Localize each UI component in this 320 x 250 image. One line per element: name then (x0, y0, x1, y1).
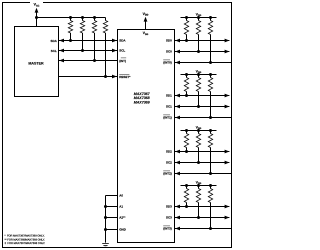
svg-text:RESET*: RESET* (119, 75, 131, 79)
pullup resistor (SD2) (184, 134, 188, 148)
arrow SD3 outward (225, 205, 230, 209)
svg-text:(INT2): (INT2) (163, 172, 172, 176)
wire VDD rail channel 0 (181, 17, 217, 19)
arrow SD1 into IC (175, 94, 180, 98)
junction rail / R3 (93, 16, 96, 19)
wire VDD stem (145, 20, 147, 30)
pullup resistor R1 (SDA) (68, 21, 72, 34)
IC U1 MAX7367/MAX7368/MAX7369 box (118, 30, 175, 243)
svg-text:MAX7368: MAX7368 (134, 96, 150, 100)
svg-text:SCL: SCL (119, 49, 125, 53)
wire pullup to SD1 line (186, 92, 188, 96)
wire INT line (59, 60, 118, 62)
wire INT3 line (175, 228, 232, 230)
svg-text:VDD: VDD (143, 12, 149, 17)
wire rail to pullup INT0 (210, 18, 212, 21)
junction rail / pullup SD1 (185, 73, 188, 76)
wire A0 stub (106, 195, 118, 197)
arrow SC0 outward (225, 50, 230, 54)
pullup resistor (INT2) (208, 134, 212, 148)
wire SD0 line (175, 40, 230, 42)
overbar (INT0) (163, 59, 170, 61)
wire pullup to SD2 line (186, 148, 188, 152)
wire SC2 line (175, 162, 230, 164)
wire pullup to INT1 line (210, 92, 212, 118)
junction rail / pullup INT3 (209, 184, 212, 187)
wire R4 to RESET line (105, 33, 107, 77)
VCC arrow up (35, 8, 39, 13)
pullup resistor (SC1) (196, 78, 200, 92)
overbar (INT3) (163, 225, 170, 227)
arrow SC3 into IC (175, 216, 180, 220)
arrow SDA into master (59, 39, 64, 43)
junction R4 / RESET line (104, 75, 107, 78)
pullup resistor R4 (RESET) (103, 21, 107, 34)
wire pullup to SC1 line (198, 92, 200, 107)
svg-text:(INT): (INT) (119, 59, 126, 63)
wire rail to R2 (82, 18, 84, 21)
svg-text:MAX7369: MAX7369 (134, 101, 150, 105)
overbar (INT1) (163, 114, 170, 116)
junction rail / R2 (81, 16, 84, 19)
svg-text:SD1: SD1 (166, 94, 172, 98)
junction pullup / SC0 line (197, 50, 200, 53)
arrow SCL into master (59, 49, 64, 53)
wire VCC rail (37, 17, 106, 19)
wire rail to R3 (94, 18, 96, 21)
junction rail / R1 (69, 16, 72, 19)
arrow SD0 into IC (175, 39, 180, 43)
white patch behind VCC label (30, 0, 43, 7)
svg-text:A0: A0 (119, 194, 123, 198)
svg-text:SD2: SD2 (166, 150, 172, 154)
wire pullup to INT0 line (210, 35, 212, 63)
svg-text:A2**: A2** (119, 216, 126, 220)
ground symbol (102, 243, 109, 245)
wire SD1 line (175, 95, 230, 97)
junction rail / pullup SC3 (197, 184, 200, 187)
overbar (INT2) (163, 170, 170, 172)
svg-text:SC2: SC2 (166, 161, 172, 165)
wire INT0 line (175, 62, 232, 64)
arrow SC2 into IC (175, 161, 180, 165)
arrow SD2 into IC (175, 150, 180, 154)
wire rail to pullup SC1 (198, 75, 200, 78)
arrow INT0 into IC (175, 61, 180, 65)
junction R1 / SDA line (69, 39, 72, 42)
wire SD2 line (175, 151, 230, 153)
pullup resistor (INT3) (208, 189, 212, 203)
svg-text:SC3: SC3 (166, 216, 172, 220)
junction rail / pullup SD0 (185, 16, 188, 19)
overbar RESET (119, 73, 129, 75)
svg-text:‡ FOR MAX7367/MAX7368 ONLY.: ‡ FOR MAX7367/MAX7368 ONLY. (5, 242, 46, 245)
junction rail / pullup SD3 (185, 184, 188, 187)
wire VCC stem to MASTER top (36, 11, 38, 27)
junction pullup / SD0 line (185, 39, 188, 42)
pullup resistor (SD0) (184, 21, 188, 35)
junction A1 / ground bus (104, 205, 107, 208)
wire rail to pullup SD3 (186, 186, 188, 189)
wire ground bus vertical (105, 196, 107, 243)
wire RESET line (59, 76, 118, 78)
arrow INT3 into IC (175, 227, 180, 231)
svg-text:(INT0): (INT0) (163, 61, 172, 65)
wire SD3 line (175, 206, 230, 208)
wire rail to R4 (105, 18, 107, 21)
junction A2 / ground bus (104, 216, 107, 219)
junction pullup / SD2 line (185, 150, 188, 153)
master device box (15, 27, 59, 97)
wire pullup to SD3 line (186, 203, 188, 207)
wire pullup to SC3 line (198, 203, 200, 218)
arrow INT2 into IC (175, 172, 180, 176)
junction rail / pullup INT1 (209, 73, 212, 76)
arrow SC2 outward (225, 161, 230, 165)
svg-text:* FOR MAX7367/MAX7369 ONLY.: * FOR MAX7367/MAX7369 ONLY. (5, 235, 45, 238)
wire rail to pullup SD2 (186, 131, 188, 134)
arrow SCL into MAX736x (112, 49, 117, 53)
junction rail / pullup INT2 (209, 129, 212, 132)
junction rail / pullup SC1 (197, 73, 200, 76)
wire VDD rail channel 1 (181, 74, 217, 76)
wire SC0 line (175, 51, 230, 53)
junction GND / ground bus (104, 228, 107, 231)
wire rail to R1 (70, 18, 72, 21)
pullup resistor (SC0) (196, 21, 200, 35)
pullup resistor (SC2) (196, 134, 200, 148)
wire A1 stub (106, 206, 118, 208)
svg-text:GND: GND (119, 228, 127, 232)
junction pullup / INT2 line (209, 172, 212, 175)
wire SC1 line (175, 106, 230, 108)
junction rail / pullup SC0 (197, 16, 200, 19)
arrow RESET into MAX736x (112, 75, 117, 79)
svg-text:MAX7367: MAX7367 (134, 92, 151, 96)
wire pullup to SD0 line (186, 35, 188, 41)
wire rail to pullup SC2 (198, 131, 200, 134)
wire R3 to INT line (94, 33, 96, 61)
arrow SD3 into IC (175, 205, 180, 209)
junction pullup / SD3 line (185, 205, 188, 208)
arrow INT into master (59, 59, 64, 63)
wire R1 to SDA line (70, 33, 72, 41)
pullup resistor (SD1) (184, 78, 188, 92)
wire rail to pullup SC3 (198, 186, 200, 189)
wire GND stub (106, 229, 118, 231)
arrow INT1 into IC (175, 116, 180, 120)
wire VDD rail channel 3 (181, 185, 217, 187)
wire pullup to INT3 line (210, 203, 212, 229)
arrow SC1 outward (225, 105, 230, 109)
wire rail to pullup INT1 (210, 75, 212, 78)
pullup resistor (INT1) (208, 78, 212, 92)
wire pullup to SC2 line (198, 148, 200, 163)
figure border frame (3, 3, 232, 248)
wire SC3 line (175, 217, 230, 219)
junction pullup / SC1 line (197, 105, 200, 108)
junction pullup / INT3 line (209, 227, 212, 230)
arrow SD1 outward (225, 94, 230, 98)
wire pullup to SC0 line (198, 35, 200, 52)
wire INT1 line (175, 117, 232, 119)
svg-text:A1: A1 (119, 205, 123, 209)
svg-text:MASTER: MASTER (28, 61, 44, 65)
pullup resistor R2 (SCL) (80, 21, 84, 34)
arrow SD2 outward (225, 150, 230, 154)
junction pullup / SC2 line (197, 161, 200, 164)
svg-text:SD0: SD0 (166, 39, 172, 43)
pullup resistor (SC3) (196, 189, 200, 203)
arrow SC1 into IC (175, 105, 180, 109)
svg-text:** FOR MAX7368/MAX7369 ONLY.: ** FOR MAX7368/MAX7369 ONLY. (5, 238, 46, 241)
arrow SC0 into IC (175, 50, 180, 54)
overbar INT (121, 57, 126, 59)
wire VDD rail channel 2 (181, 130, 217, 132)
wire pullup to INT2 line (210, 148, 212, 174)
pullup resistor (SD3) (184, 189, 188, 203)
wire rail to pullup INT2 (210, 131, 212, 134)
arrow SD0 outward (225, 39, 230, 43)
junction VCC rail / master stem (35, 16, 38, 19)
wire A2 stub (106, 217, 118, 219)
svg-text:SDA: SDA (119, 39, 126, 43)
junction pullup / SC3 line (197, 216, 200, 219)
arrow SDA into MAX736x (112, 39, 117, 43)
wire rail to pullup SD0 (186, 18, 188, 21)
junction pullup / INT1 line (209, 116, 212, 119)
junction rail / pullup SC2 (197, 129, 200, 132)
svg-text:SDA: SDA (50, 39, 57, 43)
arrow SC3 outward (225, 216, 230, 220)
wire rail to pullup INT3 (210, 186, 212, 189)
svg-text:SD3: SD3 (166, 205, 172, 209)
svg-text:(INT3): (INT3) (163, 227, 172, 231)
wire SDA bus (59, 40, 118, 42)
junction R2 / SCL line (81, 49, 84, 52)
svg-text:SCL: SCL (51, 49, 57, 53)
wire rail to pullup SD1 (186, 75, 188, 78)
svg-text:SC1: SC1 (166, 105, 172, 109)
junction rail / pullup INT0 (209, 16, 212, 19)
wire R2 to SCL line (82, 33, 84, 51)
junction rail / pullup SD2 (185, 129, 188, 132)
svg-text:SC0: SC0 (166, 50, 172, 54)
pullup resistor (INT0) (208, 21, 212, 35)
wire INT2 line (175, 173, 232, 175)
junction pullup / SD1 line (185, 94, 188, 97)
VDD arrow up (144, 17, 148, 22)
wire SCL bus (59, 50, 118, 52)
svg-text:(INT1): (INT1) (163, 116, 172, 120)
pullup resistor R3 (INT) (92, 21, 96, 34)
junction pullup / INT0 line (209, 61, 212, 64)
junction R3 / INT line (93, 59, 96, 62)
wire rail to pullup SC0 (198, 18, 200, 21)
